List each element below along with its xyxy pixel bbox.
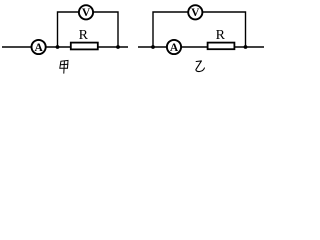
svg-text:V: V xyxy=(82,7,91,19)
svg-text:V: V xyxy=(191,7,200,19)
svg-text:A: A xyxy=(170,42,179,54)
svg-text:A: A xyxy=(34,42,43,54)
svg-text:R: R xyxy=(79,28,89,43)
svg-text:R: R xyxy=(216,28,226,43)
